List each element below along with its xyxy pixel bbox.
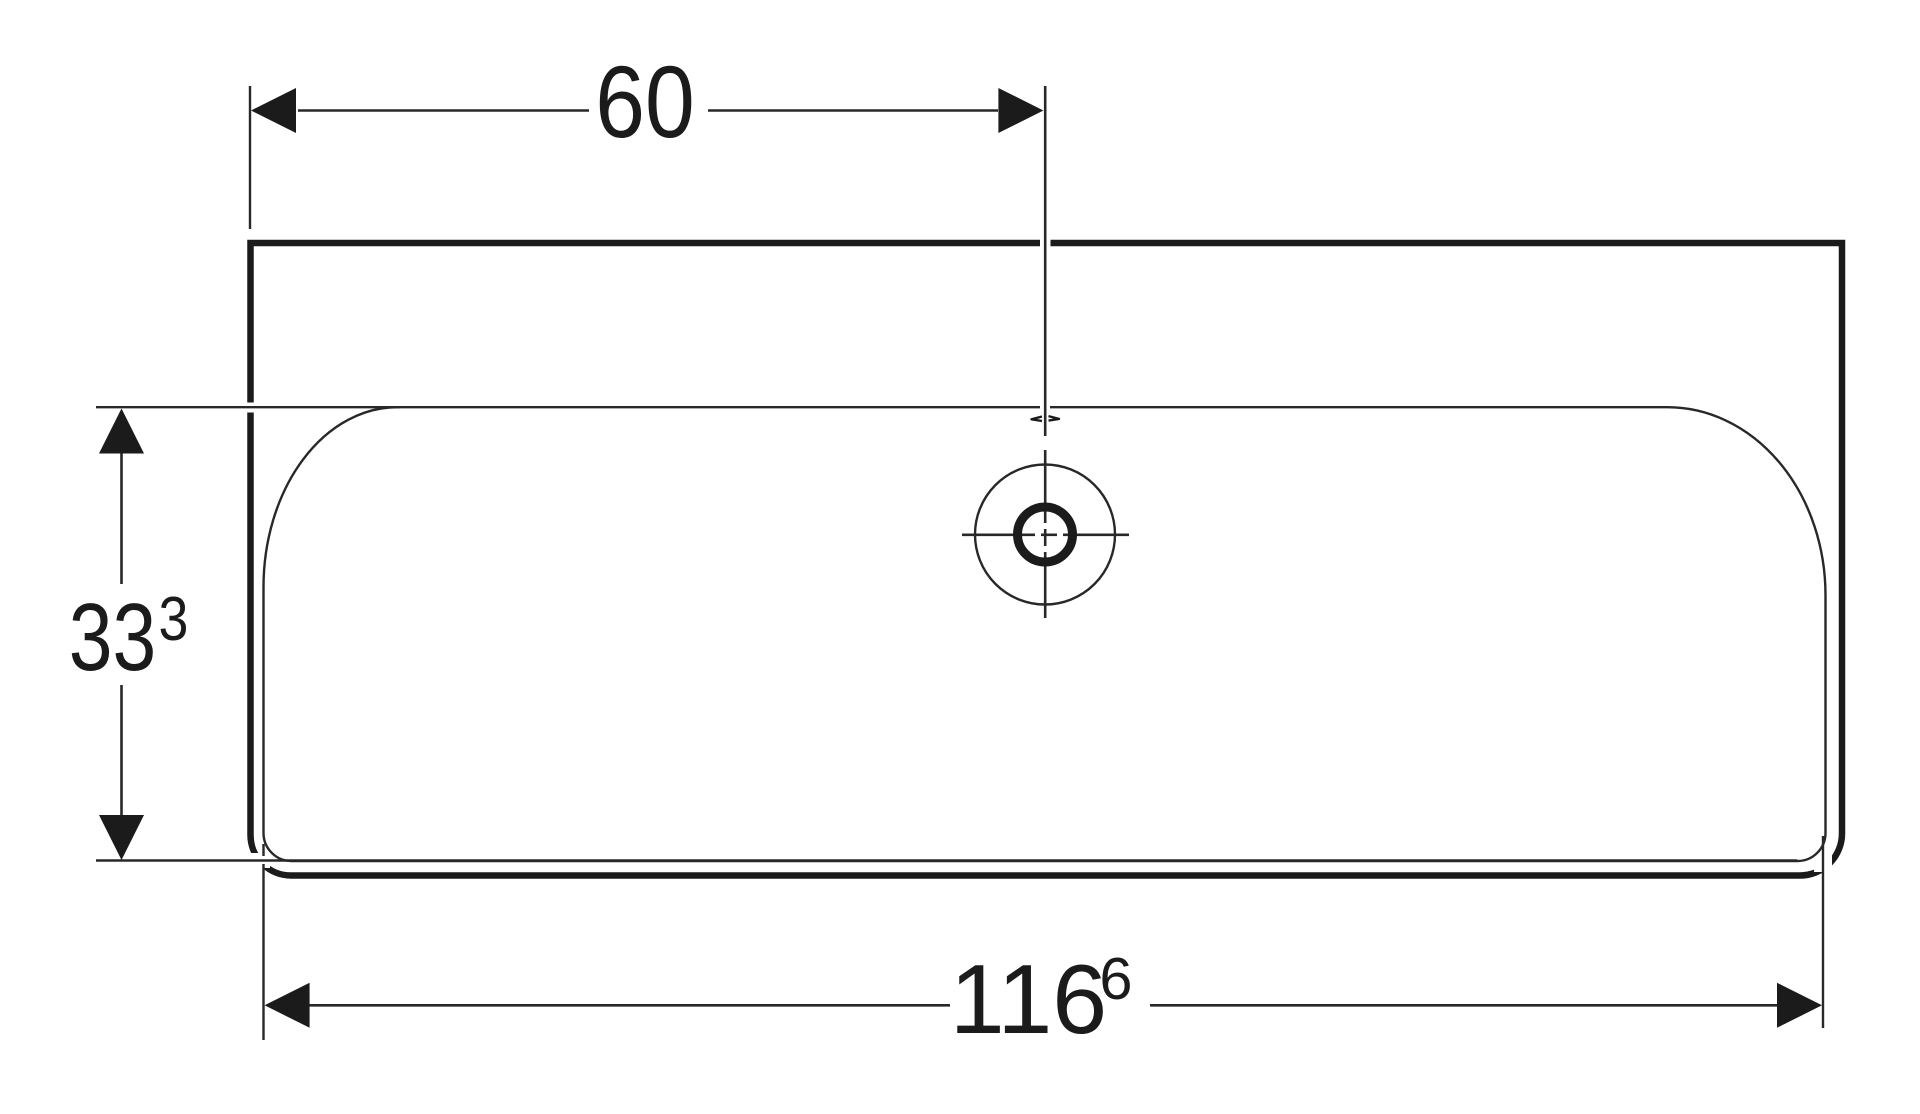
arrowhead left (60) bbox=[251, 88, 296, 133]
extension line (60 left) bbox=[249, 86, 251, 229]
gap in thick bottom-right corner at extension crossing bbox=[1814, 843, 1832, 872]
arrowhead down (33.3) bbox=[99, 815, 144, 860]
arrowhead right (116.6) bbox=[1777, 983, 1822, 1028]
extension line (116.6 left) bbox=[262, 844, 264, 856]
svg-text:116: 116 bbox=[950, 944, 1108, 1054]
tap hole: crosshair horizontal centerline bbox=[962, 533, 1035, 536]
dimension line 60 (top) bbox=[298, 109, 589, 112]
gap in thick top edge at tap centerline bbox=[1040, 236, 1051, 250]
gap in thick bottom-left corner at extension crossing bbox=[249, 853, 270, 868]
small chevron mark right of centerline on basin rim bbox=[1049, 416, 1060, 421]
gap in basin top edge at tap centerline bbox=[1040, 402, 1050, 413]
washbasin outer rim (thick outline) bbox=[251, 243, 1843, 876]
extension line (33.3 top), collinear with basin top edge bbox=[96, 406, 400, 408]
small chevron mark left of centerline on basin rim bbox=[1032, 417, 1043, 422]
svg-text:6: 6 bbox=[1099, 945, 1132, 1012]
extension line (116.6 right) bbox=[1822, 836, 1824, 1028]
svg-text:3: 3 bbox=[159, 584, 189, 654]
svg-text:33: 33 bbox=[69, 584, 157, 691]
dimension line 116.6 (bottom) bbox=[309, 1004, 950, 1007]
gap in thick left edge at extension crossing bbox=[244, 403, 257, 413]
tap hole outer circle (thin) bbox=[975, 465, 1115, 605]
svg-text:60: 60 bbox=[595, 46, 695, 160]
basin inner outline (thin) bbox=[264, 407, 1826, 861]
arrowhead up (33.3) bbox=[99, 409, 144, 454]
arrowhead right (60) bbox=[998, 88, 1043, 133]
extension line / tap centerline (60 right, vertical) bbox=[1044, 86, 1047, 436]
extension line (33.3 bottom), collinear with basin bottom edge bbox=[96, 859, 1797, 861]
arrowhead left (116.6) bbox=[265, 983, 310, 1028]
tap hole inner circle (thick) bbox=[1018, 507, 1073, 562]
dimension line 33.3 (left, vertical) bbox=[120, 453, 123, 584]
